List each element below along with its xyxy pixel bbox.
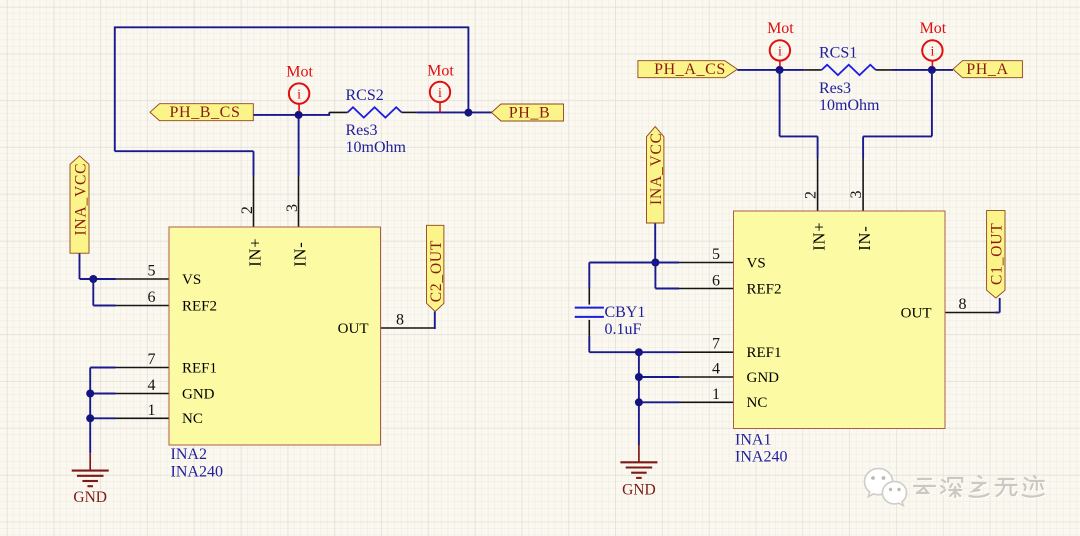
svg-text:REF2: REF2 xyxy=(182,298,217,314)
svg-text:0.1uF: 0.1uF xyxy=(605,321,642,338)
svg-text:INA1: INA1 xyxy=(735,432,771,449)
svg-text:NC: NC xyxy=(182,411,203,427)
svg-text:Mot: Mot xyxy=(920,20,947,37)
svg-text:8: 8 xyxy=(959,296,967,313)
svg-text:C1_OUT: C1_OUT xyxy=(989,223,1006,286)
svg-text:NC: NC xyxy=(747,395,768,411)
svg-text:6: 6 xyxy=(712,273,720,290)
svg-text:PH_A: PH_A xyxy=(966,61,1008,78)
svg-text:3: 3 xyxy=(284,204,301,212)
svg-text:PH_B_CS: PH_B_CS xyxy=(170,104,241,121)
svg-text:INA2: INA2 xyxy=(171,446,207,463)
svg-text:REF1: REF1 xyxy=(747,345,782,361)
svg-text:1: 1 xyxy=(712,386,720,403)
svg-text:10mOhm: 10mOhm xyxy=(346,139,407,156)
svg-text:INA240: INA240 xyxy=(171,464,223,481)
svg-text:i: i xyxy=(930,45,934,60)
svg-text:GND: GND xyxy=(747,370,780,386)
svg-text:GND: GND xyxy=(622,482,656,499)
svg-text:Mot: Mot xyxy=(286,63,313,80)
svg-text:i: i xyxy=(778,44,782,59)
svg-text:OUT: OUT xyxy=(338,321,369,337)
svg-text:4: 4 xyxy=(712,361,720,378)
svg-text:INA_VCC: INA_VCC xyxy=(72,163,89,236)
svg-text:i: i xyxy=(297,88,301,103)
svg-text:Mot: Mot xyxy=(767,20,794,37)
svg-text:VS: VS xyxy=(747,255,766,271)
svg-text:REF2: REF2 xyxy=(747,281,782,297)
svg-text:OUT: OUT xyxy=(901,305,932,321)
svg-text:Mot: Mot xyxy=(427,63,454,80)
svg-text:4: 4 xyxy=(148,377,156,394)
svg-text:GND: GND xyxy=(182,386,215,402)
svg-text:PH_A_CS: PH_A_CS xyxy=(654,61,726,78)
svg-text:RCS2: RCS2 xyxy=(346,87,384,104)
svg-text:RCS1: RCS1 xyxy=(819,45,857,62)
svg-text:5: 5 xyxy=(712,246,720,263)
svg-text:IN-: IN- xyxy=(291,241,310,266)
svg-text:INA_VCC: INA_VCC xyxy=(648,132,665,205)
svg-text:7: 7 xyxy=(712,336,720,353)
svg-text:2: 2 xyxy=(239,206,256,214)
svg-text:INA240: INA240 xyxy=(735,449,787,466)
svg-text:IN+: IN+ xyxy=(245,238,264,267)
svg-text:5: 5 xyxy=(148,263,156,280)
svg-text:3: 3 xyxy=(848,191,865,199)
svg-text:VS: VS xyxy=(182,272,201,288)
svg-text:GND: GND xyxy=(73,489,107,506)
svg-text:10mOhm: 10mOhm xyxy=(819,97,880,114)
svg-text:PH_B: PH_B xyxy=(509,105,551,122)
svg-text:7: 7 xyxy=(148,351,156,368)
svg-text:IN-: IN- xyxy=(855,225,874,250)
svg-text:2: 2 xyxy=(802,191,819,199)
svg-text:1: 1 xyxy=(148,402,156,419)
svg-text:C2_OUT: C2_OUT xyxy=(428,240,445,303)
svg-text:6: 6 xyxy=(148,289,156,306)
svg-text:i: i xyxy=(438,86,442,101)
svg-text:Res3: Res3 xyxy=(346,122,378,139)
svg-text:IN+: IN+ xyxy=(810,222,829,251)
svg-text:REF1: REF1 xyxy=(182,360,217,376)
svg-text:8: 8 xyxy=(396,312,404,329)
svg-text:CBY1: CBY1 xyxy=(605,304,646,321)
svg-text:Res3: Res3 xyxy=(819,80,851,97)
